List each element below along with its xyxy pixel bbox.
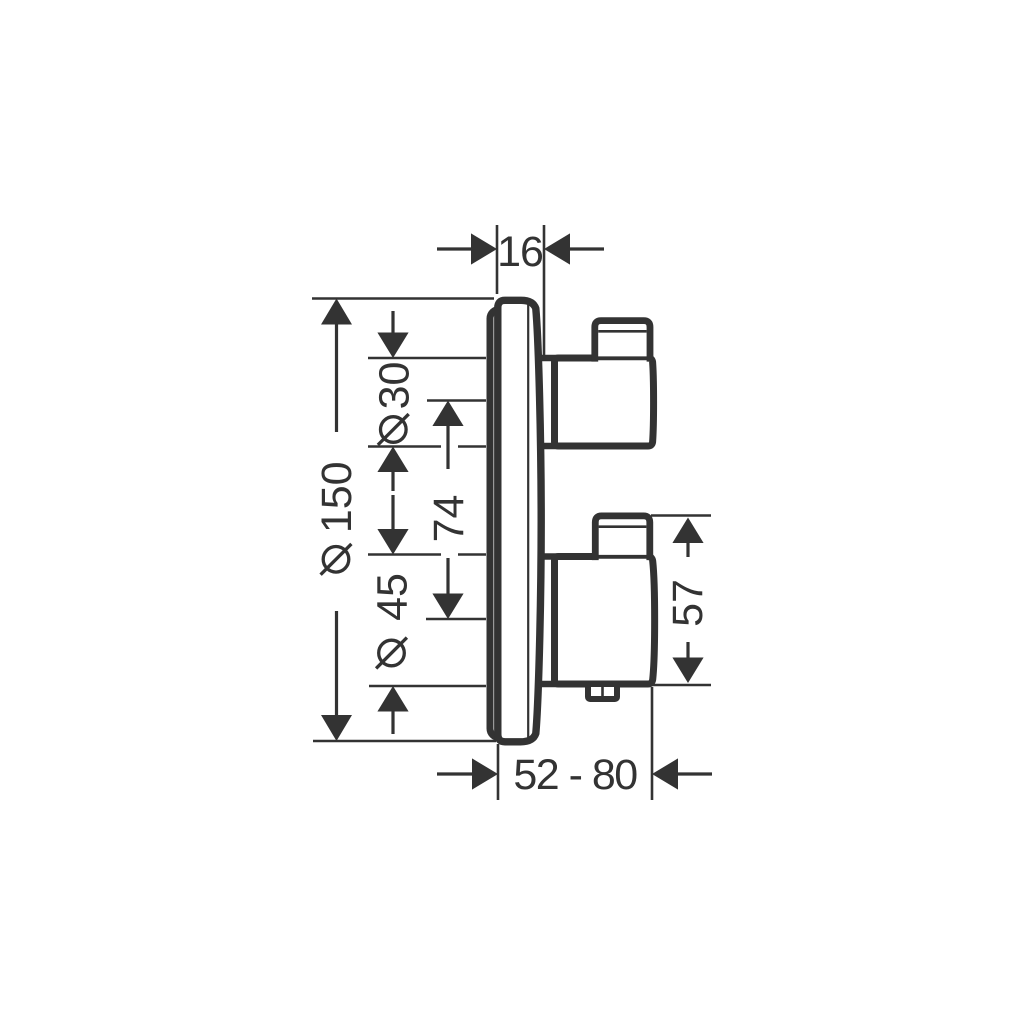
dimension 16: left arrow [471,233,497,264]
dimension 16: right extension line [543,225,546,356]
escutcheon back rim [490,310,524,738]
dimension D45: bottom extension line [369,685,486,688]
lower knob cap [595,516,650,560]
dimension D30: label digits [370,362,418,410]
dimension D150: down arrow [321,715,352,741]
svg-text:52 - 80: 52 - 80 [513,751,637,799]
dimension 57: down arrow [672,658,703,684]
dimension 57: bottom extension line [650,684,711,687]
escutcheon plate side view [498,300,541,742]
dimension 16: label [497,228,543,276]
dimension D45: bottom arrow tail [391,711,394,734]
dimension 57: up arrow [672,518,703,544]
dimension 52-80: left shaft [437,772,473,775]
dimension 57: top extension line [651,514,711,517]
dimension D150: upper line [335,323,338,432]
svg-text:57: 57 [664,579,712,627]
dimension D30: top arrow tail [391,311,394,334]
svg-text:74: 74 [425,495,473,543]
lower knob neck [538,557,558,685]
dimension 74: label [425,495,473,543]
dimension 52-80: right arrow [652,758,678,789]
dimension 16: right shaft [570,247,604,250]
dimension D45: top extension line right [458,553,486,556]
dimension D30: label diameter symbol [378,414,409,445]
dimension D150: lower line [335,611,338,717]
upper knob cap [595,321,650,362]
dimension 16: left extension line [496,225,499,294]
dimension 57: up arrow tail [686,542,689,557]
dimension 57: label [664,579,712,627]
dimension D30: bottom arrow tail [391,471,394,491]
dimension D45: top extension line left [368,553,441,556]
dimension 74: up arrow tail [446,425,449,469]
lower knob body [555,557,655,685]
dimension 52-80: left extension line [497,744,500,800]
svg-text:16: 16 [497,228,543,276]
svg-text:30: 30 [370,362,418,410]
dimension D150: top extension line [312,297,494,300]
dimension D30: top extension line [368,357,486,360]
dimension D150: bottom extension line [313,740,496,743]
dimension D45: label diameter symbol [376,638,407,669]
dimension 74: down arrow tail [446,558,449,594]
bottom notch on lower knob [588,684,617,699]
dimension D150: label diameter symbol [321,544,352,575]
svg-text:150: 150 [313,461,361,533]
dimension 74: up arrow [432,401,463,427]
upper knob neck [539,358,558,446]
dimension 52-80: right shaft [678,772,712,775]
dimension 16: left shaft [437,247,472,250]
dimension 52-80: left arrow [472,758,498,789]
dimension D150: up arrow [321,299,352,325]
dimension 74: bottom line [426,618,486,621]
plate face line [527,305,529,739]
dimension D45: bottom arrow [377,686,408,712]
lower knob cap inner line [599,525,647,528]
lower knob cap junction line [597,555,648,559]
dimension 52-80: label [513,751,637,799]
dimension 74: top line [427,399,486,402]
dimension 74: down arrow [432,594,463,620]
dimension D30: bottom arrow [377,447,408,473]
dimension D30: bottom extension line left [368,445,441,448]
dimension D150: label digits [313,461,361,533]
dimension 57: down arrow tail [686,642,689,658]
dimension 16: right arrow [544,233,570,264]
dimension D30: top arrow [377,333,408,359]
dimension D30: bottom extension line right [458,445,486,448]
svg-text:45: 45 [369,573,417,621]
dimension D45: label digits [369,573,417,621]
upper knob cap junction line [597,356,649,360]
dimension D45: top arrow tail [391,495,394,530]
upper knob cap inner line [598,330,646,333]
dimension D45: top arrow [377,529,408,555]
dimension 52-80: right extension line [651,687,654,800]
upper knob body [555,358,654,446]
